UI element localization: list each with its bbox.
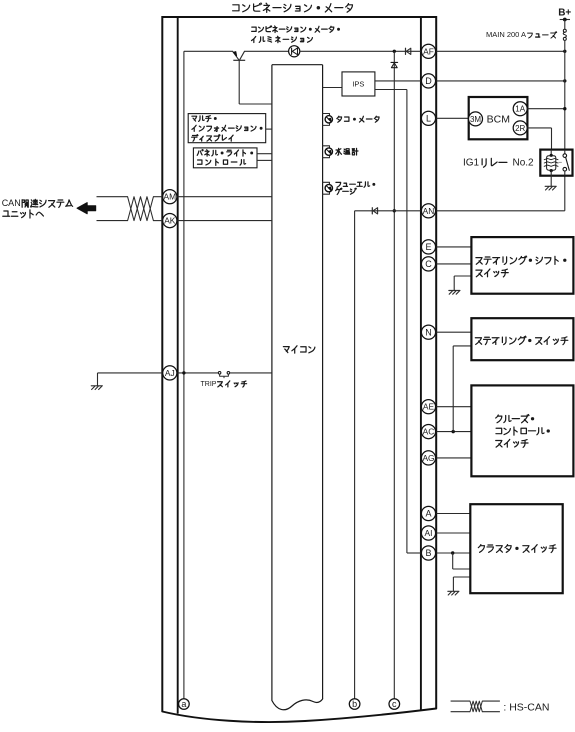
svg-text:BCM: BCM — [487, 114, 510, 126]
svg-text:B: B — [425, 548, 431, 558]
svg-text:3M: 3M — [470, 115, 481, 124]
svg-text:No.2: No.2 — [513, 158, 535, 169]
svg-text:b: b — [352, 699, 357, 709]
svg-text:AF: AF — [423, 46, 434, 56]
svg-text:AN: AN — [423, 206, 435, 216]
svg-text:AI: AI — [425, 528, 433, 538]
svg-text:IPS: IPS — [352, 80, 364, 89]
svg-text:C: C — [425, 259, 432, 269]
svg-text:a: a — [181, 699, 186, 709]
svg-text:A: A — [425, 509, 431, 519]
svg-text:AJ: AJ — [165, 368, 175, 378]
svg-text:c: c — [392, 699, 397, 709]
svg-text:B+: B+ — [558, 7, 571, 18]
svg-text:AK: AK — [164, 216, 176, 226]
svg-text:MAIN 200 A: MAIN 200 A — [486, 30, 526, 39]
svg-text:2R: 2R — [515, 124, 525, 133]
svg-text:D: D — [425, 76, 432, 86]
svg-text:AE: AE — [423, 402, 435, 412]
svg-text:CAN: CAN — [2, 198, 21, 208]
svg-text:L: L — [426, 114, 431, 124]
svg-text:AG: AG — [422, 453, 434, 463]
svg-text:IG1: IG1 — [463, 158, 480, 169]
svg-text:AC: AC — [423, 427, 435, 437]
svg-text:TRIP: TRIP — [201, 381, 217, 388]
svg-text:: HS-CAN: : HS-CAN — [503, 701, 549, 713]
svg-text:AM: AM — [164, 192, 177, 202]
svg-text:N: N — [425, 327, 432, 337]
svg-text:E: E — [425, 242, 431, 252]
svg-text:1A: 1A — [515, 105, 525, 114]
